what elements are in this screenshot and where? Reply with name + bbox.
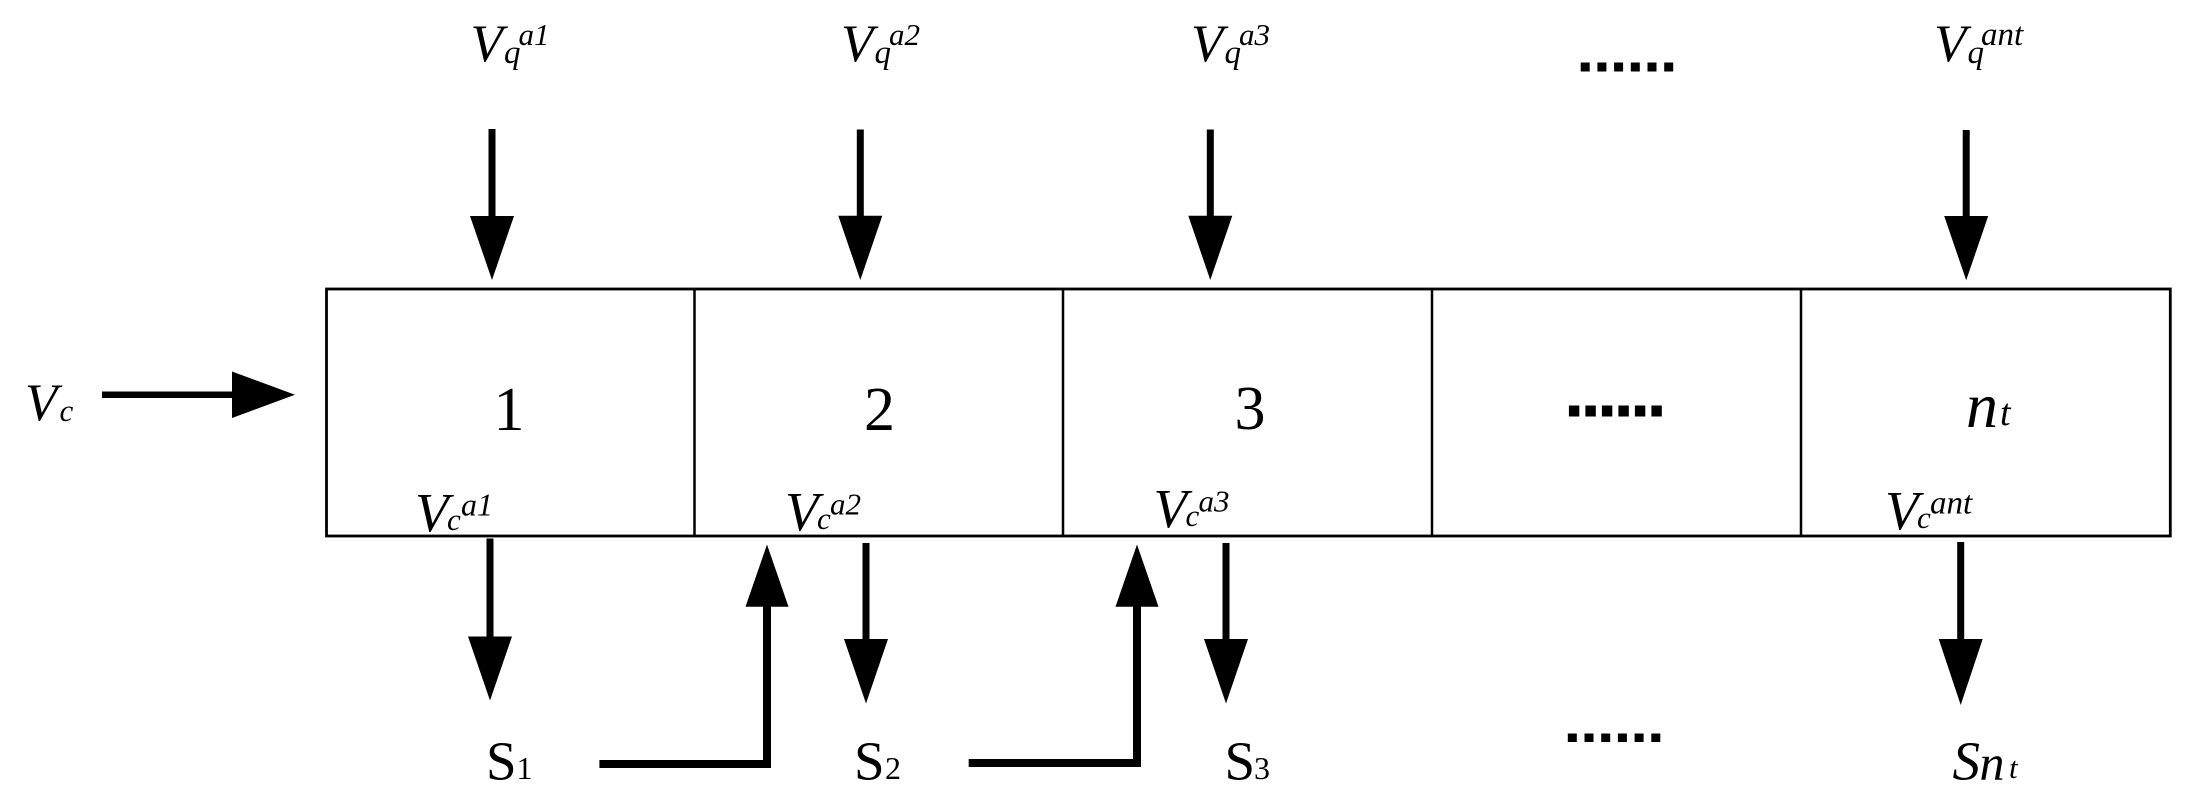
top arrow into cell 5 xyxy=(1944,130,1988,280)
label Vc^a1 (in cell 1) xyxy=(415,482,493,543)
top ellipsis dots xyxy=(1581,63,1674,72)
svg-text:t: t xyxy=(2009,750,2019,785)
svg-text:V: V xyxy=(471,15,509,73)
elbow arrow S1 up into cell 2 xyxy=(599,545,788,765)
down arrow from cell 2 to S2 xyxy=(844,543,888,704)
top arrow into cell 1 xyxy=(470,129,514,280)
cell 4 ellipsis dots xyxy=(1569,406,1662,417)
svg-text:a2: a2 xyxy=(889,17,920,52)
svg-text:V: V xyxy=(841,15,879,73)
label Vc^ant (in cell 5) xyxy=(1885,480,1973,541)
svg-text:ant: ant xyxy=(1930,486,1973,522)
svg-text:S: S xyxy=(854,731,885,792)
svg-text:S: S xyxy=(1225,731,1256,792)
label S3 xyxy=(1225,731,1271,792)
svg-text:a1: a1 xyxy=(461,487,493,523)
svg-text:a3: a3 xyxy=(1199,484,1230,519)
label Vq^a1 xyxy=(471,15,550,73)
svg-text:c: c xyxy=(817,501,831,536)
svg-text:1: 1 xyxy=(494,376,525,444)
svg-text:n: n xyxy=(1966,370,1998,441)
svg-text:a2: a2 xyxy=(830,487,861,522)
divider cell1/cell2 xyxy=(693,289,696,536)
svg-text:n: n xyxy=(1980,735,2005,791)
label S2 xyxy=(854,731,901,792)
label Snt xyxy=(1953,731,2020,792)
svg-text:3: 3 xyxy=(1254,750,1270,786)
label Vq^a3 xyxy=(1191,15,1270,73)
svg-text:2: 2 xyxy=(864,376,895,444)
down arrow from cell 1 to S1 xyxy=(468,539,512,701)
svg-text:ant: ant xyxy=(1981,17,2024,53)
top arrow into cell 3 xyxy=(1188,130,1232,281)
top arrow into cell 2 xyxy=(838,130,882,281)
register row box xyxy=(327,289,2171,536)
svg-text:V: V xyxy=(25,374,63,432)
svg-text:c: c xyxy=(1186,498,1200,533)
svg-text:V: V xyxy=(1934,15,1972,73)
label Vq^a2 xyxy=(841,15,920,73)
svg-text:V: V xyxy=(1191,15,1229,73)
svg-text:c: c xyxy=(447,502,461,537)
svg-text:3: 3 xyxy=(1235,375,1266,443)
svg-text:c: c xyxy=(1917,500,1931,535)
svg-text:S: S xyxy=(486,731,517,792)
divider cell3/cell4 xyxy=(1431,289,1434,536)
svg-text:S: S xyxy=(1953,731,1981,792)
svg-text:c: c xyxy=(60,393,74,428)
svg-text:t: t xyxy=(2000,392,2012,434)
svg-text:1: 1 xyxy=(517,750,533,786)
elbow arrow S2 up into cell 3 xyxy=(969,545,1159,764)
down arrow from cell 3 to S3 xyxy=(1204,543,1248,704)
label Vc^a3 (in cell 3) xyxy=(1154,478,1230,539)
divider cell4/cell5 xyxy=(1800,289,1803,536)
down arrow from cell 5 to Snt xyxy=(1939,542,1983,705)
svg-text:2: 2 xyxy=(885,750,901,786)
divider cell2/cell3 xyxy=(1062,289,1065,536)
left arrow Vc into cell 1 xyxy=(102,372,295,419)
label Vc (left input) xyxy=(25,374,74,432)
svg-text:a3: a3 xyxy=(1239,17,1270,52)
svg-text:a1: a1 xyxy=(519,17,550,52)
label Vc^a2 (in cell 2) xyxy=(785,481,861,542)
cell label nt xyxy=(1966,370,2012,441)
bottom ellipsis dots xyxy=(1568,734,1661,743)
label Vq^ant xyxy=(1934,15,2024,73)
label S1 xyxy=(486,731,533,792)
